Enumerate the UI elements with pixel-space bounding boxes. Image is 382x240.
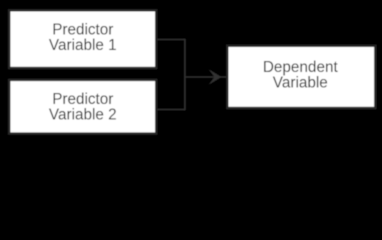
svg-text:Variable 1: Variable 1	[49, 37, 117, 54]
arrowhead	[209, 69, 222, 85]
box Predictor Variable 2	[9, 80, 156, 134]
wire arrow shaft to Dependent Variable	[185, 76, 227, 78]
svg-text:Predictor: Predictor	[52, 21, 113, 38]
svg-text:Dependent: Dependent	[263, 59, 339, 76]
svg-text:Variable 2: Variable 2	[49, 107, 117, 124]
wire from box Predictor Variable 1 to junction	[156, 39, 185, 41]
wire from box Predictor Variable 2 to junction	[156, 109, 185, 111]
svg-text:Predictor: Predictor	[52, 91, 113, 108]
box Dependent Variable	[227, 46, 375, 108]
wire vertical junction segment	[184, 39, 186, 111]
box Predictor Variable 1	[9, 10, 156, 68]
svg-text:Variable: Variable	[273, 75, 328, 92]
